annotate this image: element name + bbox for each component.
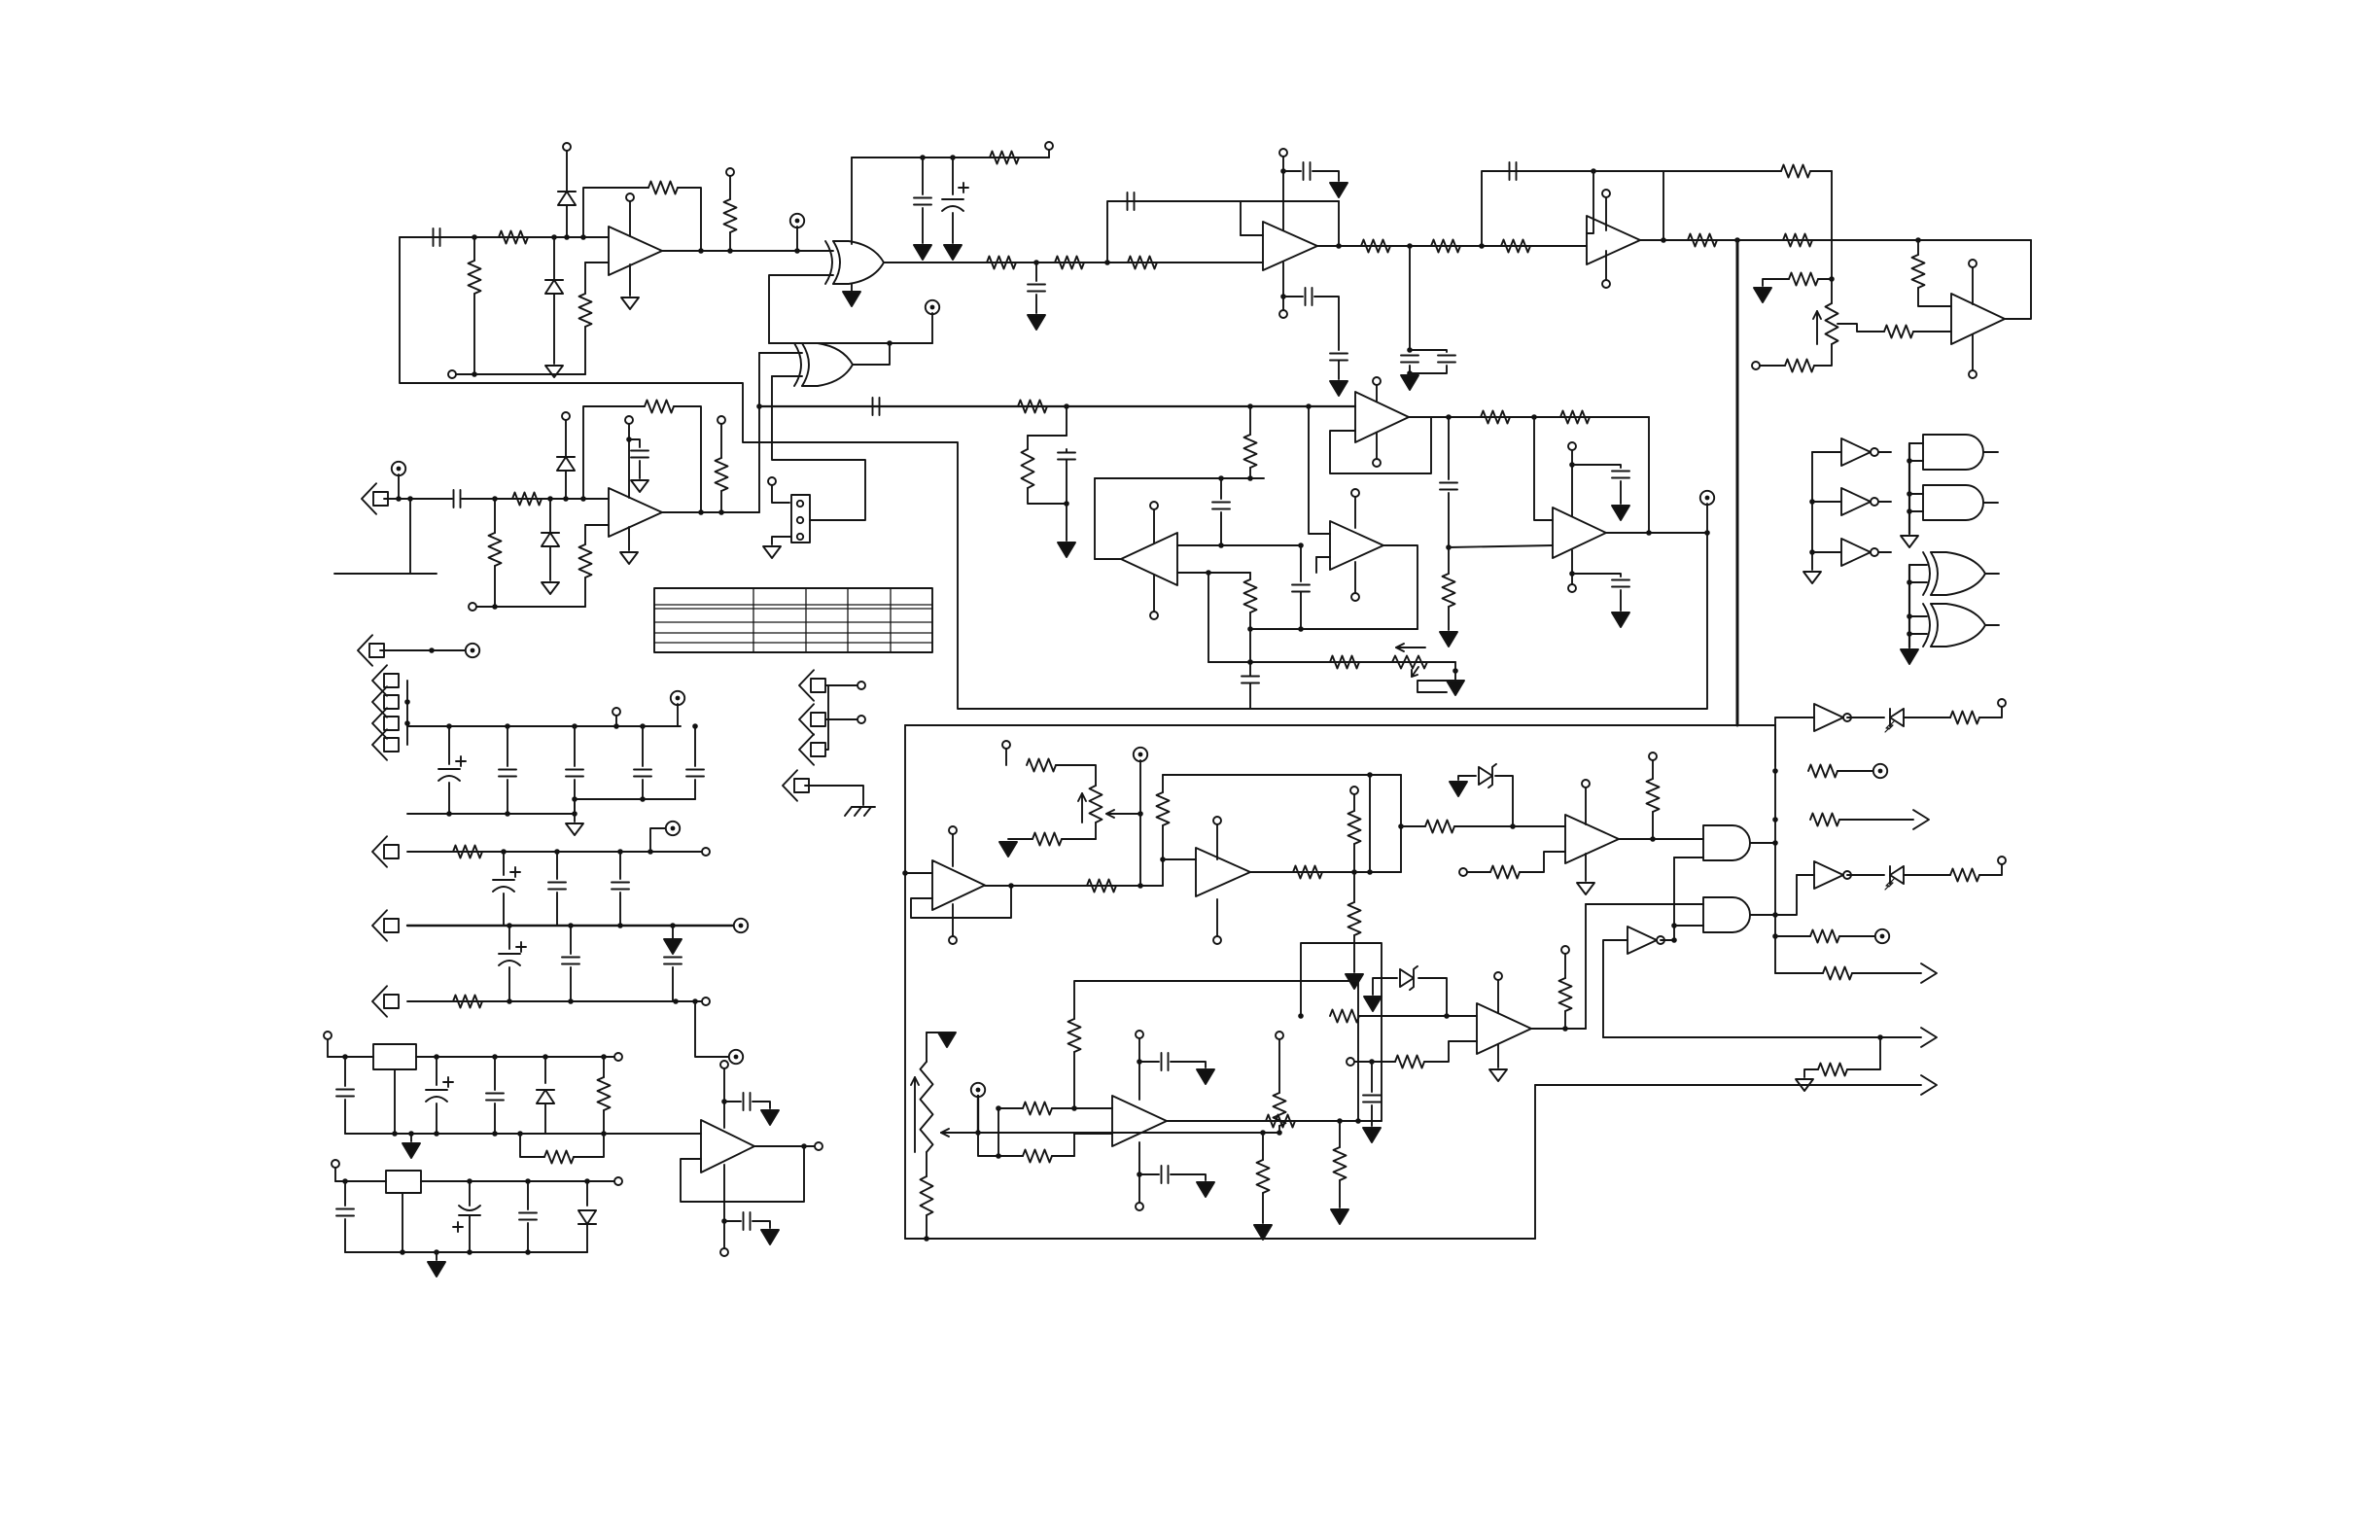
node K1 [404, 699, 410, 705]
ground [1577, 883, 1594, 894]
wire [759, 352, 802, 354]
wire [905, 872, 932, 874]
net row4 [1640, 239, 2031, 241]
diode D4 [557, 457, 575, 471]
wire [503, 893, 505, 926]
node F4 [1829, 276, 1835, 282]
op-amp U5 [1951, 294, 2005, 344]
wire [1605, 197, 1607, 230]
wire [1312, 171, 1339, 181]
node B4 [887, 340, 892, 346]
terminal J4 [1045, 142, 1053, 150]
wire [1066, 449, 1067, 452]
ground [566, 823, 583, 835]
terminal J1 [563, 143, 571, 151]
wire [1354, 497, 1356, 528]
wire [931, 313, 933, 343]
wire [1300, 592, 1302, 629]
wire [1418, 978, 1447, 1016]
wire [825, 718, 857, 720]
node O5 [1160, 857, 1166, 862]
wire [1262, 1133, 1264, 1160]
terminal U10 V+ [1351, 489, 1359, 497]
op-amp U4 [1587, 216, 1640, 264]
potentiometer RV4 arrow [911, 1077, 919, 1152]
op-amp U12 [932, 860, 985, 910]
net block top [905, 724, 1775, 726]
potentiometer RV2 arrow [1396, 644, 1425, 677]
wire [1909, 581, 1927, 583]
resistor R49 [1810, 814, 1839, 826]
wire [1073, 1134, 1075, 1156]
wire [1674, 857, 1703, 858]
capacitor C1 [434, 228, 440, 246]
wire [1495, 776, 1513, 826]
capacitor C35 [486, 1094, 504, 1101]
node L11 [568, 998, 574, 1004]
terminal U3 V- [1279, 310, 1287, 318]
node M10 [517, 1131, 523, 1137]
node G5 [563, 496, 569, 502]
feedback wire [911, 886, 1011, 918]
wire out [2005, 240, 2031, 319]
diode D6 [578, 1210, 596, 1224]
resistor R21 [489, 533, 502, 566]
wire [494, 499, 496, 533]
wire [1249, 612, 1251, 629]
wire [1448, 417, 1450, 479]
wire [1878, 501, 1891, 503]
wire [1648, 417, 1650, 533]
wire [1585, 904, 1587, 1029]
wire [1409, 366, 1411, 373]
terminal J12 [702, 997, 710, 1005]
terminal U13 V+ [1213, 817, 1221, 824]
resistor R63 [1395, 1056, 1424, 1068]
ground [631, 480, 648, 492]
wire [926, 1152, 927, 1176]
wire [398, 474, 400, 499]
net op12 out [985, 885, 1163, 887]
capacitor C10 [1438, 356, 1455, 363]
node Q5 [996, 1153, 1001, 1159]
node O1 [902, 870, 908, 876]
wire [584, 262, 586, 294]
node I2 [1531, 414, 1537, 420]
node G4 [547, 496, 553, 502]
net rail B2 [575, 798, 695, 800]
node F3 [1915, 237, 1921, 243]
node Q7 [1071, 1105, 1077, 1111]
capacitor C38 [336, 1209, 354, 1216]
terminal U5 V+ [1969, 260, 1977, 267]
wire [1572, 574, 1621, 577]
ground [1197, 1182, 1214, 1197]
node L8 [670, 923, 676, 928]
node I5 [1569, 571, 1575, 577]
node J8 [1298, 542, 1304, 548]
wire -in [1424, 1041, 1477, 1062]
wire [1909, 510, 1923, 512]
wire [1153, 509, 1155, 543]
resistor R43 [1348, 902, 1361, 935]
wire [380, 649, 469, 651]
terminal J19 [1350, 787, 1358, 794]
wire [1095, 558, 1121, 560]
hook wire [334, 573, 437, 575]
wire [1620, 590, 1622, 611]
node G6 [580, 496, 586, 502]
wire [1839, 819, 1913, 821]
net ref row [941, 1132, 1279, 1134]
capacitor C28 [548, 883, 566, 890]
resistor R20 [512, 493, 542, 506]
terminal J15 [815, 1142, 822, 1150]
wire [1283, 296, 1303, 297]
net mid rail C [1250, 628, 1417, 630]
resistor R15 [1912, 255, 1925, 288]
resistor R17 [1781, 165, 1810, 178]
connector P4 arrow [372, 729, 399, 760]
capacitor C19 [1212, 503, 1230, 509]
wire [772, 485, 789, 503]
resistor R45 [1490, 866, 1520, 879]
potentiometer RV3 [1090, 786, 1102, 822]
resistor R35 [598, 1077, 611, 1110]
ground [542, 582, 559, 594]
wire [720, 491, 722, 512]
node R3 [1369, 1059, 1375, 1065]
capacitor C39 polarized [453, 1206, 480, 1232]
ground [761, 1230, 779, 1244]
node K7 [640, 723, 646, 729]
wire -in [585, 262, 609, 263]
capacitor C4 [1028, 285, 1045, 292]
wire [1775, 972, 1823, 974]
resistor R48 [1808, 765, 1837, 778]
wire [1763, 279, 1789, 286]
node F2 [1734, 237, 1740, 243]
ground [938, 1032, 956, 1047]
node Q3 [1260, 1130, 1266, 1136]
resistor R3 [648, 182, 678, 194]
node J5 [1247, 659, 1253, 665]
terminal J22 [1998, 699, 2006, 707]
test point TP11 [1875, 929, 1889, 943]
net row1116 [1535, 1084, 1921, 1086]
wire [723, 1221, 725, 1248]
wire to op [604, 1133, 701, 1135]
capacitor C20 [1242, 677, 1259, 683]
node S6 [1907, 579, 1912, 585]
zener diode Z2 [1400, 966, 1417, 990]
ground [843, 292, 860, 306]
wire [1249, 683, 1251, 709]
wire [1913, 331, 1951, 332]
node E4 [1407, 347, 1413, 353]
resistor R11 [1431, 240, 1460, 253]
wire [384, 498, 452, 500]
wire [1909, 633, 1927, 635]
wire [344, 1219, 346, 1252]
wire [1066, 406, 1067, 436]
wire [796, 227, 798, 251]
node O11 [1650, 836, 1656, 842]
wire [1162, 825, 1164, 886]
node R1 [1298, 1013, 1304, 1019]
node O8 [1367, 869, 1373, 875]
wire [469, 1181, 471, 1206]
wire [574, 799, 576, 814]
wire [565, 420, 567, 457]
node M12 [801, 1143, 807, 1149]
ground [1330, 183, 1347, 197]
op-amp U13 [1196, 848, 1250, 896]
wire [1448, 493, 1450, 547]
bold stem [977, 1096, 979, 1133]
wire [1220, 478, 1222, 499]
op-amp U1 [609, 227, 662, 275]
net cmp1 out [1619, 838, 1703, 840]
terminal U12 V- [949, 936, 957, 944]
wire [1373, 978, 1397, 995]
wire [952, 904, 954, 936]
wire [723, 1068, 725, 1128]
node J1 [1218, 475, 1224, 481]
node G1 [396, 496, 402, 502]
test point TP5 [671, 691, 684, 705]
wire [556, 852, 558, 879]
wire [922, 157, 924, 194]
wire [615, 716, 617, 726]
wire [1005, 749, 1007, 765]
net reg1 gnd rail [345, 1133, 604, 1135]
node D2 [1104, 260, 1110, 265]
test point TP9 [1134, 748, 1147, 761]
node K13 [572, 796, 577, 802]
node Q11 [1355, 1118, 1361, 1124]
net op7 out [1409, 416, 1649, 418]
node H1 [698, 509, 704, 515]
node B1 [698, 248, 704, 254]
terminal J26 [1561, 946, 1569, 954]
test point TP7 [734, 919, 748, 932]
node C2 [950, 155, 956, 160]
capacitor C8 [1330, 354, 1347, 361]
wire [1972, 334, 1974, 370]
xor gate U2B [794, 343, 853, 386]
terminal U13 V- [1213, 936, 1221, 944]
node M11 [601, 1131, 607, 1137]
ground [1901, 536, 1918, 547]
wire [1564, 1011, 1566, 1029]
capacitor C32 [664, 958, 682, 964]
ground [1901, 649, 1918, 664]
node B2 [727, 248, 733, 254]
and gate U15B [1703, 897, 1750, 932]
wire [1467, 871, 1490, 873]
terminal U1 V+ [626, 193, 634, 201]
ground [1447, 681, 1464, 695]
wire [772, 376, 865, 520]
wire [1035, 295, 1037, 313]
wire [544, 1057, 546, 1083]
node J2 [1247, 475, 1253, 481]
wire [1812, 501, 1841, 503]
wire [1409, 373, 1411, 375]
terminal U5 V- [1969, 370, 1977, 378]
wire [549, 499, 551, 533]
terminal J9 [768, 477, 776, 485]
wire [952, 157, 954, 194]
node J7 [1218, 542, 1224, 548]
connector P2 arrow [372, 686, 399, 717]
node H3 [756, 403, 762, 409]
node D1 [1033, 260, 1039, 265]
potentiometer RV4 [921, 1062, 933, 1152]
wire [1571, 550, 1573, 584]
wire [406, 681, 408, 745]
test point TP6 [666, 822, 680, 835]
capacitor C3 polarized [942, 183, 968, 211]
wire -in [585, 524, 609, 526]
ground [1803, 572, 1821, 583]
wire [1661, 939, 1674, 941]
resistor R50 [1950, 869, 1979, 882]
resistor R46 [1647, 779, 1660, 812]
node O3 [1137, 883, 1143, 889]
node I6 [1646, 530, 1652, 536]
wire [1847, 874, 1884, 876]
wire reg1 gnd pin [394, 1069, 396, 1134]
node A1 [472, 234, 477, 240]
wire [494, 566, 496, 607]
node P6 [1671, 937, 1677, 943]
capacitor C30 polarized [499, 942, 526, 965]
wire [1300, 545, 1302, 581]
inverter U16B [1814, 861, 1851, 889]
wire [344, 1181, 346, 1206]
capacitor C26 [686, 770, 704, 777]
net rail A [407, 725, 681, 727]
wire [527, 1223, 529, 1252]
node L10 [507, 998, 512, 1004]
node L3 [617, 849, 623, 855]
wire [642, 726, 644, 766]
wire [1095, 822, 1097, 839]
wire [1338, 201, 1340, 246]
node Q9 [1137, 1172, 1142, 1177]
connector P11 arrow [799, 734, 825, 765]
capacitor C31 [562, 958, 579, 964]
wire [1401, 825, 1425, 827]
wire [1139, 760, 1141, 886]
node K3 [446, 723, 452, 729]
wire [1282, 262, 1284, 310]
feedback wire [583, 188, 648, 237]
feedback wire [1107, 201, 1339, 262]
wire [508, 967, 510, 1001]
wire [327, 1039, 329, 1057]
wire [752, 1221, 770, 1228]
node J9 [1298, 626, 1304, 632]
node L12 [673, 998, 679, 1004]
wire [584, 327, 586, 374]
node K2 [404, 720, 410, 726]
wire [1985, 573, 1999, 575]
wire [758, 353, 760, 512]
capacitor C6 [1304, 162, 1311, 180]
wire [1035, 262, 1037, 281]
wire [553, 237, 555, 280]
wire [724, 1101, 741, 1102]
wire [1586, 903, 1703, 905]
test point TP10 [1873, 764, 1887, 778]
wire [1171, 1062, 1206, 1067]
node G7 [492, 604, 498, 610]
wire [603, 1110, 605, 1134]
jumper pin 3 [797, 534, 803, 540]
terminal U12 V+ [949, 826, 957, 834]
wire [1338, 361, 1340, 379]
resistor R54 [921, 1176, 933, 1215]
wire [694, 780, 696, 799]
ground [1612, 612, 1629, 627]
ground [914, 245, 931, 260]
node H7 [1064, 501, 1069, 507]
wire [1066, 460, 1067, 504]
net rail2 [476, 606, 585, 608]
node M8 [434, 1131, 439, 1137]
wire [674, 406, 701, 512]
wire [769, 275, 833, 343]
terminal U11 V- [720, 1248, 728, 1256]
net rail G [407, 925, 734, 927]
wire [1847, 1037, 1880, 1069]
wire [334, 1168, 336, 1181]
terminal U8 trim [1568, 442, 1576, 450]
node O2 [1008, 883, 1014, 889]
wire [1162, 775, 1164, 792]
and2 out [1750, 914, 1775, 916]
net reg1 in [328, 1056, 373, 1058]
wire [723, 1165, 725, 1221]
node I3 [1446, 544, 1452, 550]
wire [1839, 935, 1876, 937]
wire [1605, 251, 1607, 280]
wire [1847, 717, 1884, 718]
net reg2 out [421, 1180, 614, 1182]
and gate U15A [1703, 825, 1750, 860]
wire [1371, 1105, 1373, 1126]
wire -in [1520, 852, 1565, 872]
wire [1904, 717, 1950, 718]
node Q4 [1277, 1130, 1282, 1136]
wire [1353, 935, 1355, 972]
wire [584, 577, 586, 607]
potentiometer RV3 wiper [1106, 810, 1140, 818]
box right edge [1400, 775, 1402, 872]
terminal J16 [332, 1160, 339, 1168]
wire [997, 1108, 999, 1156]
wire [639, 461, 641, 478]
ground [1058, 542, 1075, 557]
wire [1171, 1174, 1206, 1180]
resistor R52 [1823, 967, 1852, 980]
wire [507, 726, 508, 766]
block right stub [1774, 725, 1776, 766]
wire [1775, 935, 1810, 937]
